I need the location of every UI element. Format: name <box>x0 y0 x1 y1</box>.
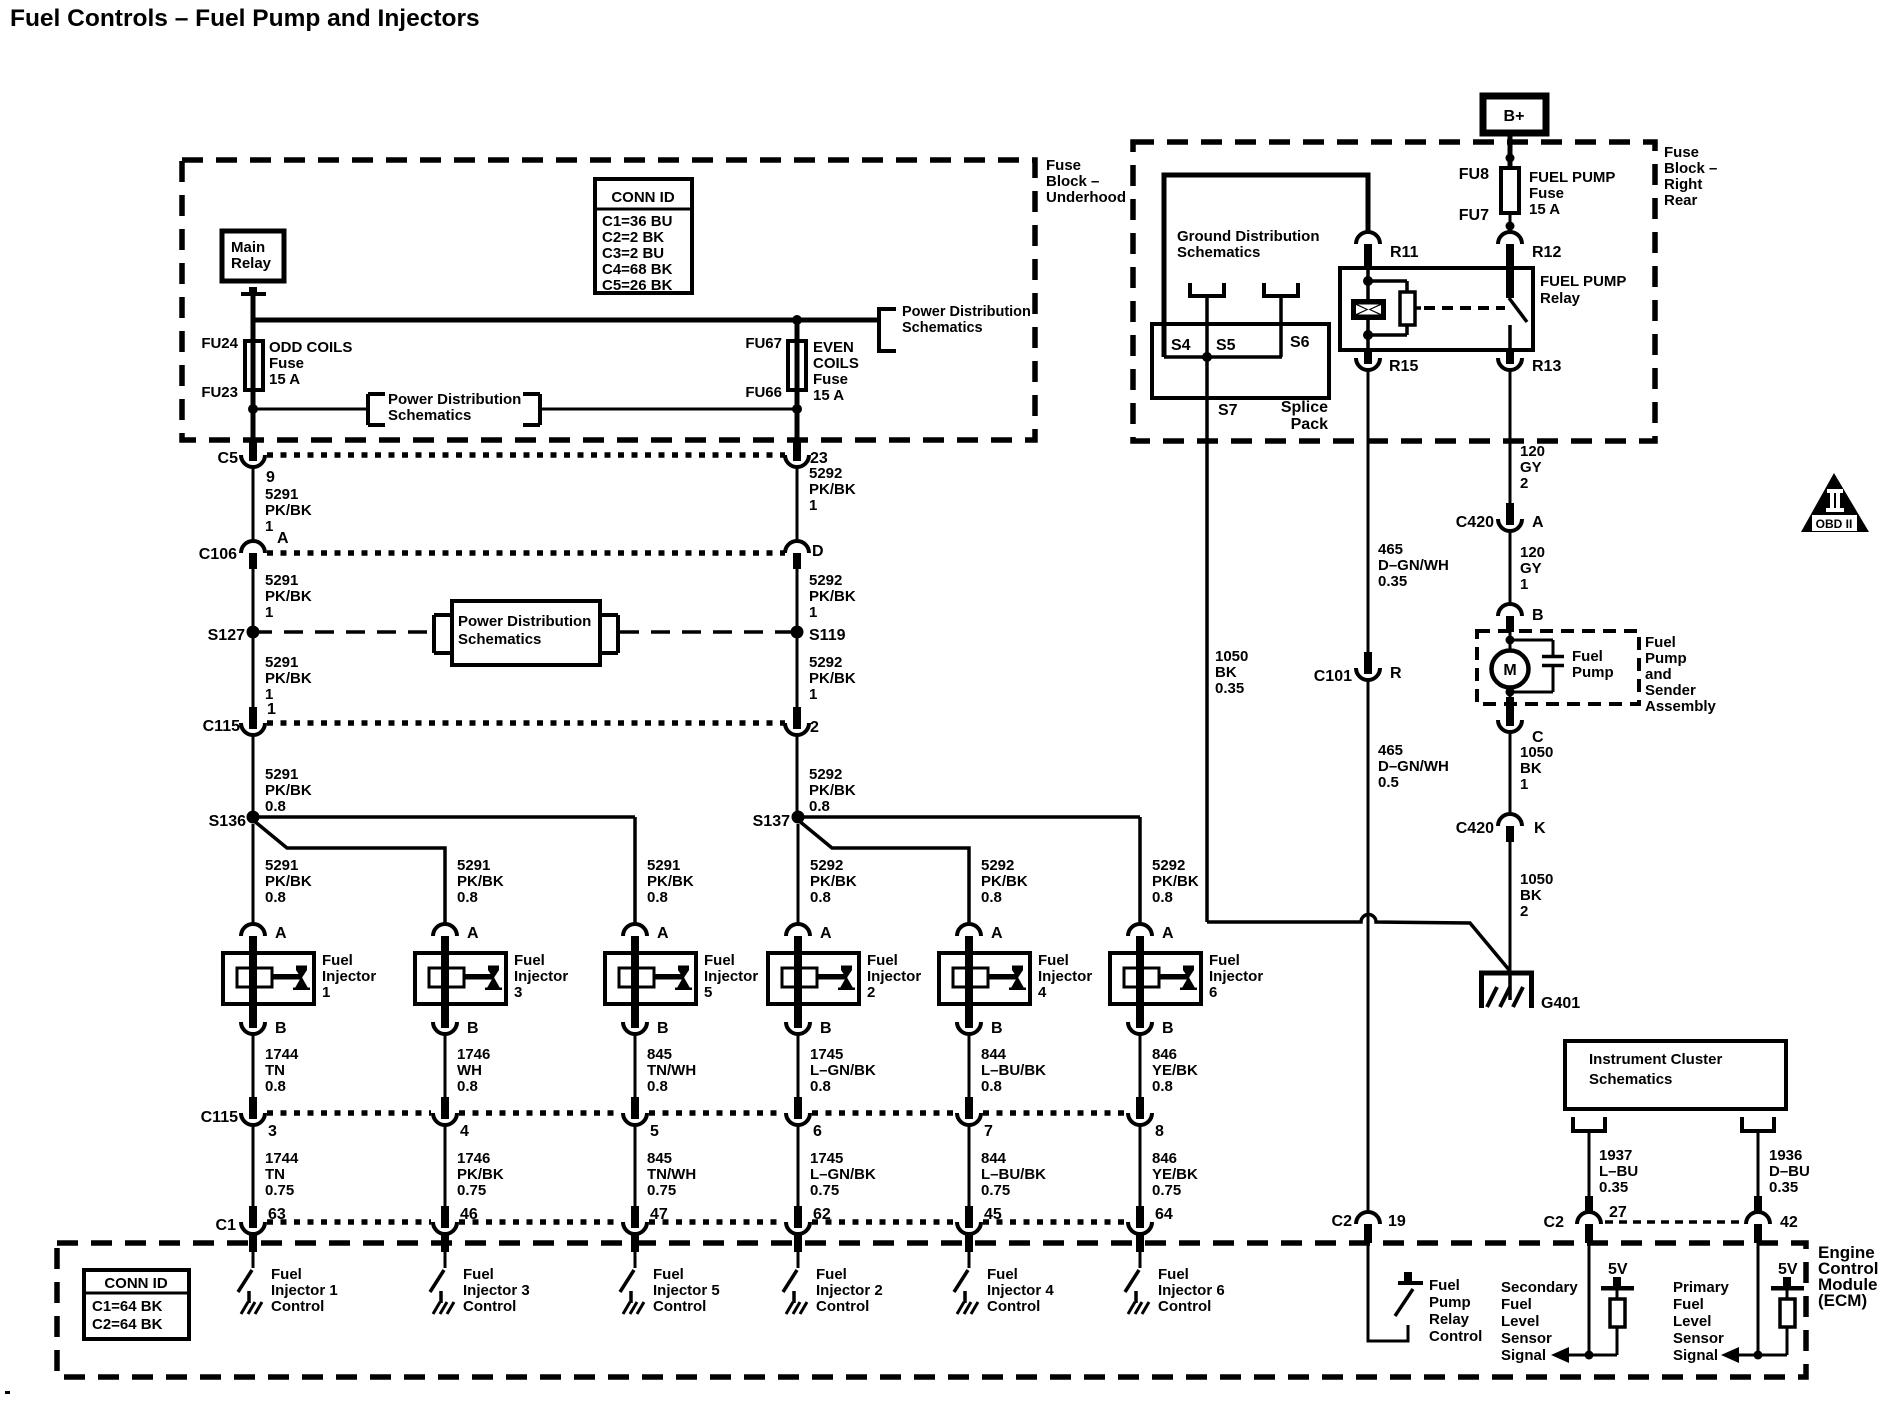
connector pin A (fuel injector 4) <box>957 924 1003 953</box>
svg-text:0.8: 0.8 <box>457 889 478 906</box>
wire 1746 0.8 (injector 3 B to C115-4) <box>444 1034 447 1097</box>
svg-text:Signal: Signal <box>1673 1347 1718 1364</box>
svg-text:FU23: FU23 <box>201 384 238 401</box>
svg-text:B: B <box>1532 607 1544 624</box>
svg-text:A: A <box>657 925 669 942</box>
svg-text:0.8: 0.8 <box>1152 889 1173 906</box>
svg-text:Injector 6: Injector 6 <box>1158 1282 1225 1299</box>
svg-text:Fuel: Fuel <box>1209 952 1240 969</box>
svg-text:0.75: 0.75 <box>981 1182 1010 1199</box>
svg-text:S137: S137 <box>753 813 790 830</box>
svg-text:15 A: 15 A <box>269 371 300 388</box>
connector pin A (fuel injector 5) <box>623 924 669 953</box>
fuel injector 1 (solenoid valve) <box>223 953 314 1004</box>
wire 120 GY 2 (R13 to C420-A) <box>1509 370 1512 503</box>
svg-text:FU24: FU24 <box>201 335 238 352</box>
5V source (secondary fuel level) <box>1601 1261 1634 1291</box>
wire 1936 D-BU 0.35 <box>1769 1147 1810 1196</box>
label Fuel Injector 1 <box>322 952 376 1001</box>
dashed wire ref to S119 <box>620 630 797 634</box>
connector line C115 row (pins 3-8) <box>267 1110 431 1116</box>
svg-text:844: 844 <box>981 1046 1007 1063</box>
svg-text:Instrument Cluster: Instrument Cluster <box>1589 1051 1723 1068</box>
wire S136 branch to injector 5 <box>253 815 635 819</box>
instrument cluster pigtail (right) <box>1742 1117 1774 1196</box>
wire 1744 0.8 (injector 1 B to C115-3) <box>252 1034 255 1097</box>
svg-text:Level: Level <box>1673 1313 1711 1330</box>
off-page ref box: Power Distribution Schematics (middle) <box>434 601 618 665</box>
relay switch contact <box>1506 268 1527 350</box>
fuse block right rear dashed box <box>1133 142 1655 441</box>
svg-text:0.75: 0.75 <box>1152 1182 1181 1199</box>
label Secondary Fuel Level Sensor Signal <box>1501 1279 1578 1364</box>
connector pin B (fuel injector 1) <box>241 1004 287 1037</box>
svg-text:S7: S7 <box>1218 402 1238 419</box>
svg-text:C1: C1 <box>216 1217 237 1234</box>
wire C1-63 into ECM <box>249 1233 257 1252</box>
connector C1 pin 45 <box>957 1206 1002 1234</box>
svg-text:Underhood: Underhood <box>1046 189 1126 206</box>
svg-text:ODD COILS: ODD COILS <box>269 339 352 356</box>
label FUEL PUMP Relay <box>1540 273 1626 307</box>
label Fuel Injector 2 <box>867 952 921 1001</box>
ECM driver switch: Fuel Injector 3 Control <box>430 1270 454 1314</box>
svg-text:Injector 4: Injector 4 <box>987 1282 1054 1299</box>
svg-text:1050: 1050 <box>1520 871 1553 888</box>
svg-text:GY: GY <box>1520 560 1542 577</box>
svg-text:1: 1 <box>267 701 276 718</box>
label Splice Pack <box>1281 399 1328 433</box>
svg-text:Control: Control <box>653 1298 706 1315</box>
svg-text:5292: 5292 <box>809 572 842 589</box>
wire 1745 0.75 (C115-6 to C1-62) <box>797 1125 800 1206</box>
wire C2-42 to primary fuel level sensor signal <box>1757 1243 1760 1355</box>
connector C1 pin 63 <box>241 1206 286 1234</box>
svg-text:Fuel: Fuel <box>653 1266 684 1283</box>
connector C115 pin 3 <box>241 1097 277 1140</box>
connector line C1 row (pins 63-64) <box>267 1219 431 1225</box>
connector C106 pin D (right) <box>785 541 824 569</box>
svg-text:PK/BK: PK/BK <box>457 1166 504 1183</box>
svg-text:Injector 3: Injector 3 <box>463 1282 530 1299</box>
svg-text:Fuel: Fuel <box>1572 648 1603 665</box>
svg-text:Injector 5: Injector 5 <box>653 1282 720 1299</box>
label Fuel Pump and Sender Assembly <box>1645 634 1717 715</box>
svg-text:Sensor: Sensor <box>1673 1330 1724 1347</box>
svg-text:4: 4 <box>460 1123 469 1140</box>
svg-text:C2=2 BK: C2=2 BK <box>602 229 664 246</box>
wire 5291 PK/BK 1 (S127 to C115-1) <box>252 632 255 707</box>
wire: horizontal feed bus to power distribution <box>251 318 879 323</box>
svg-text:R: R <box>1390 665 1402 682</box>
dashed wire S127 to power distribution ref <box>253 630 432 634</box>
connector pin B (fuel pump) <box>1498 604 1544 632</box>
relay coil suppression resistor <box>1368 281 1421 335</box>
svg-text:Injector: Injector <box>867 968 921 985</box>
svg-text:L–BU/BK: L–BU/BK <box>981 1062 1046 1079</box>
connector C115 pin 1 (left) <box>203 701 276 735</box>
connector C101 pin R <box>1314 652 1402 685</box>
wire C1-64 into ECM <box>1136 1233 1144 1252</box>
wire S137 down to injector 2 <box>797 824 800 924</box>
svg-text:465: 465 <box>1378 541 1403 558</box>
svg-text:Right: Right <box>1664 176 1702 193</box>
svg-text:0.8: 0.8 <box>457 1078 478 1095</box>
svg-text:0.8: 0.8 <box>981 889 1002 906</box>
svg-text:TN: TN <box>265 1062 285 1079</box>
svg-text:0.8: 0.8 <box>810 889 831 906</box>
svg-text:120: 120 <box>1520 443 1545 460</box>
svg-text:A: A <box>1532 514 1544 531</box>
svg-text:0.8: 0.8 <box>647 1078 668 1095</box>
wire lower ref to FU66 <box>540 408 797 411</box>
svg-text:Fuel: Fuel <box>514 952 545 969</box>
label Fuel Injector 5 Control <box>653 1266 720 1315</box>
svg-text:5291: 5291 <box>265 857 298 874</box>
svg-text:Level: Level <box>1501 1313 1539 1330</box>
ECM driver switch: Fuel Injector 2 Control <box>783 1270 807 1314</box>
svg-text:PK/BK: PK/BK <box>809 588 856 605</box>
svg-text:1745: 1745 <box>810 1150 843 1167</box>
svg-text:0.5: 0.5 <box>1378 774 1399 791</box>
wire 5291 PK/BK 1 (C5-9 to C106-A) <box>252 467 255 541</box>
svg-text:B: B <box>991 1020 1003 1037</box>
svg-text:PK/BK: PK/BK <box>265 588 312 605</box>
svg-text:1746: 1746 <box>457 1046 490 1063</box>
svg-text:5291: 5291 <box>265 486 298 503</box>
svg-text:844: 844 <box>981 1150 1007 1167</box>
svg-text:5292: 5292 <box>981 857 1014 874</box>
svg-text:D–GN/WH: D–GN/WH <box>1378 758 1449 775</box>
ground distribution loop wire <box>1164 175 1368 357</box>
svg-text:Fuel: Fuel <box>704 952 735 969</box>
svg-text:Control: Control <box>1158 1298 1211 1315</box>
svg-text:YE/BK: YE/BK <box>1152 1166 1198 1183</box>
svg-text:Relay: Relay <box>1540 290 1581 307</box>
svg-text:2: 2 <box>810 719 819 736</box>
svg-text:Splice: Splice <box>1281 399 1328 416</box>
relay coil <box>1351 268 1386 350</box>
svg-text:and: and <box>1645 666 1672 683</box>
connector pin A (fuel injector 6) <box>1128 924 1174 953</box>
svg-text:5V: 5V <box>1778 1261 1798 1278</box>
svg-text:3: 3 <box>514 984 522 1001</box>
svg-text:A: A <box>277 530 289 547</box>
svg-text:0.8: 0.8 <box>1152 1078 1173 1095</box>
svg-text:BK: BK <box>1520 760 1542 777</box>
wire label 5292 PK/BK 0.8 (to injector col 4) <box>810 857 857 906</box>
svg-text:PK/BK: PK/BK <box>809 481 856 498</box>
svg-text:C115: C115 <box>201 1109 238 1126</box>
svg-text:1744: 1744 <box>265 1150 299 1167</box>
svg-text:1: 1 <box>265 604 273 621</box>
svg-text:Fuse: Fuse <box>813 371 848 388</box>
wire C1-46 into ECM <box>441 1233 449 1252</box>
svg-text:Fuse: Fuse <box>1529 185 1564 202</box>
svg-text:FU8: FU8 <box>1459 166 1489 183</box>
svg-text:Fuel: Fuel <box>987 1266 1018 1283</box>
svg-text:Fuel: Fuel <box>1645 634 1676 651</box>
relay actuation dashed link <box>1424 306 1505 310</box>
fuel pump relay (box) <box>1340 268 1533 350</box>
wire FU23 to lower power distribution ref <box>248 404 258 414</box>
svg-text:5291: 5291 <box>647 857 680 874</box>
node junction FU67 tap <box>792 315 802 325</box>
fuel injector 4 (solenoid valve) <box>939 953 1030 1004</box>
svg-text:R13: R13 <box>1532 358 1561 375</box>
connector pin B (fuel injector 5) <box>623 1004 669 1037</box>
svg-text:5291: 5291 <box>265 654 298 671</box>
svg-text:0.8: 0.8 <box>265 889 286 906</box>
svg-text:Fuel: Fuel <box>816 1266 847 1283</box>
svg-text:Rear: Rear <box>1664 192 1698 209</box>
svg-text:Signal: Signal <box>1501 1347 1546 1364</box>
svg-text:846: 846 <box>1152 1046 1177 1063</box>
ECM driver switch: Fuel Injector 6 Control <box>1125 1270 1149 1314</box>
svg-text:S6: S6 <box>1290 334 1310 351</box>
wire S136 down to injector 1 <box>252 824 255 924</box>
wire 5291 PK/BK 1 (C106 to S127) <box>252 569 255 629</box>
label Fuel Pump (inside assembly) <box>1572 648 1614 681</box>
connector C2 pin 42 <box>1746 1196 1798 1243</box>
svg-text:FU7: FU7 <box>1459 207 1489 224</box>
svg-text:L–GN/BK: L–GN/BK <box>810 1062 876 1079</box>
svg-text:Fuse: Fuse <box>1664 144 1699 161</box>
svg-text:Control: Control <box>987 1298 1040 1315</box>
svg-text:FU67: FU67 <box>745 335 782 352</box>
svg-text:S4: S4 <box>1171 337 1191 354</box>
svg-text:L–BU: L–BU <box>1599 1163 1638 1180</box>
svg-text:Block –: Block – <box>1046 173 1099 190</box>
fuel pump and sender assembly dashed box <box>1477 631 1639 704</box>
page mark <box>5 1391 10 1394</box>
svg-text:WH: WH <box>457 1062 482 1079</box>
wire 846 0.75 (C115-8 to C1-64) <box>1139 1125 1142 1206</box>
connector C1 pin 64 <box>1128 1206 1173 1234</box>
main relay K (box) <box>222 231 284 281</box>
svg-text:1: 1 <box>809 497 817 514</box>
primary signal node and arrow <box>1721 1347 1787 1363</box>
CONN ID table (ECM) <box>84 1270 189 1339</box>
svg-text:64: 64 <box>1155 1206 1173 1223</box>
svg-text:Control: Control <box>271 1298 324 1315</box>
svg-text:1050: 1050 <box>1215 648 1248 665</box>
svg-text:Injector: Injector <box>1038 968 1092 985</box>
wire 120 GY 1 (C420-A to fuel pump B) <box>1509 531 1512 604</box>
svg-text:Main: Main <box>231 239 265 256</box>
svg-text:Schematics: Schematics <box>1177 244 1260 261</box>
svg-text:Schematics: Schematics <box>458 631 541 648</box>
svg-text:Injector: Injector <box>514 968 568 985</box>
svg-text:(ECM): (ECM) <box>1818 1291 1867 1310</box>
svg-text:0.75: 0.75 <box>810 1182 839 1199</box>
wire 1050 BK 0.35 (S7 splice pack to ground bus) <box>1205 357 1209 922</box>
svg-text:Pack: Pack <box>1291 416 1328 433</box>
5V source (primary fuel level) <box>1771 1261 1804 1291</box>
connector C1 pin 62 <box>786 1206 831 1234</box>
svg-text:0.75: 0.75 <box>457 1182 486 1199</box>
connector C2 pin 27 <box>1544 1196 1627 1243</box>
wire 465 D-GN/WH 0.35 (R15 to C101) <box>1367 370 1370 652</box>
svg-text:0.35: 0.35 <box>1378 573 1407 590</box>
engine control module (ECM) dashed box <box>57 1243 1806 1377</box>
wire C1-62 into ECM <box>794 1233 802 1252</box>
svg-text:BK: BK <box>1215 664 1237 681</box>
svg-text:27: 27 <box>1609 1204 1627 1221</box>
svg-text:5292: 5292 <box>810 857 843 874</box>
wire 465 D-GN/WH 0.5 (C101 to C2-19) <box>1367 680 1370 1212</box>
svg-text:2: 2 <box>1520 475 1528 492</box>
svg-text:S136: S136 <box>209 813 246 830</box>
svg-text:PK/BK: PK/BK <box>1152 873 1199 890</box>
svg-text:C3=2 BU: C3=2 BU <box>602 245 664 262</box>
svg-text:PK/BK: PK/BK <box>265 873 312 890</box>
svg-text:PK/BK: PK/BK <box>810 873 857 890</box>
svg-text:PK/BK: PK/BK <box>265 670 312 687</box>
svg-text:0.8: 0.8 <box>265 798 286 815</box>
splice S136 <box>209 811 260 831</box>
svg-text:C2: C2 <box>1544 1214 1565 1231</box>
wire C2-27 to secondary fuel level sensor signal <box>1588 1243 1591 1355</box>
svg-text:0.75: 0.75 <box>647 1182 676 1199</box>
svg-text:PK/BK: PK/BK <box>809 670 856 687</box>
wire 844 0.75 (C115-7 to C1-45) <box>968 1125 971 1206</box>
svg-text:Injector: Injector <box>704 968 758 985</box>
svg-text:Pump: Pump <box>1429 1294 1471 1311</box>
svg-text:C2: C2 <box>1332 1213 1353 1230</box>
svg-text:L–BU/BK: L–BU/BK <box>981 1166 1046 1183</box>
wire 844 0.8 (injector 4 B to C115-7) <box>968 1034 971 1097</box>
svg-text:Power Distribution: Power Distribution <box>388 391 521 408</box>
wire 846 0.8 (injector 6 B to C115-8) <box>1139 1034 1142 1097</box>
connector pin C (fuel pump) <box>1498 697 1544 746</box>
svg-text:Fuel: Fuel <box>463 1266 494 1283</box>
svg-text:7: 7 <box>984 1123 993 1140</box>
wire 5292 PK/BK 1 (S119 to C115-2) <box>796 632 799 707</box>
svg-text:BK: BK <box>1520 887 1542 904</box>
splice pack pigtail (left) <box>1190 283 1224 324</box>
svg-text:120: 120 <box>1520 544 1545 561</box>
svg-text:Fuel: Fuel <box>322 952 353 969</box>
svg-text:5V: 5V <box>1608 1261 1628 1278</box>
svg-text:1050: 1050 <box>1520 744 1553 761</box>
ECM driver: fuel pump relay control switch <box>1395 1272 1423 1316</box>
svg-text:B: B <box>657 1020 669 1037</box>
wire label 5292 PK/BK 0.8 (to injector col 5) <box>981 857 1028 906</box>
svg-text:465: 465 <box>1378 742 1403 759</box>
svg-text:1: 1 <box>1520 776 1528 793</box>
svg-text:Pump: Pump <box>1645 650 1687 667</box>
svg-text:1937: 1937 <box>1599 1147 1632 1164</box>
svg-text:Primary: Primary <box>1673 1279 1730 1296</box>
main relay output terminal <box>241 287 266 296</box>
svg-text:PK/BK: PK/BK <box>981 873 1028 890</box>
connector R13 <box>1498 350 1561 375</box>
battery feed B+ <box>1483 96 1546 133</box>
ECM driver switch: Fuel Injector 1 Control <box>238 1270 262 1314</box>
svg-text:Injector 1: Injector 1 <box>271 1282 338 1299</box>
svg-text:5291: 5291 <box>457 857 490 874</box>
label Fuel Pump Relay Control <box>1429 1277 1482 1345</box>
svg-text:Fuse: Fuse <box>269 355 304 372</box>
connector R11 <box>1356 232 1419 268</box>
svg-text:1745: 1745 <box>810 1046 843 1063</box>
svg-text:6: 6 <box>1209 984 1217 1001</box>
svg-text:Fuel Controls – Fuel Pump and: Fuel Controls – Fuel Pump and Injectors <box>10 5 480 32</box>
svg-text:Control: Control <box>1429 1328 1482 1345</box>
svg-text:C115: C115 <box>203 718 240 735</box>
fuel injector 6 (solenoid valve) <box>1110 953 1201 1004</box>
svg-text:C5=26 BK: C5=26 BK <box>602 277 673 294</box>
svg-text:B: B <box>275 1020 287 1037</box>
CONN ID table (top) <box>595 179 692 294</box>
connector C115 pin 8 <box>1128 1097 1164 1140</box>
connector line C2 row <box>1605 1220 1742 1224</box>
svg-text:2: 2 <box>1520 903 1528 920</box>
svg-text:C106: C106 <box>199 546 237 563</box>
svg-text:0.75: 0.75 <box>265 1182 294 1199</box>
label Fuel Injector 4 Control <box>987 1266 1054 1315</box>
svg-text:C420: C420 <box>1456 514 1494 531</box>
label Ground Distribution Schematics <box>1177 228 1319 261</box>
connector pin B (fuel injector 6) <box>1128 1004 1174 1037</box>
fuse block underhood dashed box <box>182 160 1035 440</box>
svg-text:5292: 5292 <box>1152 857 1185 874</box>
svg-text:1: 1 <box>1520 576 1528 593</box>
wire 1937 L-BU 0.35 <box>1599 1147 1638 1196</box>
svg-text:M: M <box>1503 662 1516 679</box>
svg-text:A: A <box>275 925 287 942</box>
wire S137 branch to injector 4 <box>798 820 969 924</box>
svg-text:Injector: Injector <box>1209 968 1263 985</box>
svg-text:5292: 5292 <box>809 465 842 482</box>
svg-text:PK/BK: PK/BK <box>265 502 312 519</box>
connector C115 pin 2 (right) <box>785 707 819 736</box>
svg-text:Pump: Pump <box>1572 664 1614 681</box>
svg-text:GY: GY <box>1520 459 1542 476</box>
svg-text:EVEN: EVEN <box>813 339 854 356</box>
label Fuel Injector 5 <box>704 952 758 1001</box>
svg-text:8: 8 <box>1155 1123 1164 1140</box>
svg-text:Injector 2: Injector 2 <box>816 1282 883 1299</box>
svg-text:TN: TN <box>265 1166 285 1183</box>
label Fuel Injector 2 Control <box>816 1266 883 1315</box>
connector C115 pin 6 <box>786 1097 822 1140</box>
svg-text:Fuel: Fuel <box>1501 1296 1532 1313</box>
svg-text:0.8: 0.8 <box>647 889 668 906</box>
svg-text:B: B <box>820 1020 832 1037</box>
svg-text:Schematics: Schematics <box>902 320 983 336</box>
svg-text:0.8: 0.8 <box>981 1078 1002 1095</box>
svg-text:1744: 1744 <box>265 1046 299 1063</box>
svg-text:845: 845 <box>647 1046 672 1063</box>
svg-text:6: 6 <box>813 1123 822 1140</box>
wire 1745 0.8 (injector 2 B to C115-6) <box>797 1034 800 1097</box>
svg-text:PK/BK: PK/BK <box>809 782 856 799</box>
svg-text:B+: B+ <box>1504 108 1525 125</box>
ground G401 <box>1479 973 1580 1012</box>
svg-text:0.35: 0.35 <box>1215 680 1244 697</box>
svg-text:Power Distribution: Power Distribution <box>458 613 591 630</box>
svg-text:C1=64 BK: C1=64 BK <box>92 1298 163 1315</box>
svg-text:2: 2 <box>867 984 875 1001</box>
svg-text:C420: C420 <box>1456 820 1494 837</box>
svg-text:TN/WH: TN/WH <box>647 1166 696 1183</box>
label Primary Fuel Level Sensor Signal <box>1673 1279 1730 1364</box>
wire label 5291 PK/BK 0.8 (to injector col 3) <box>647 857 694 906</box>
wire 5291 PK/BK 0.8 (C115-1 to S136) <box>252 735 255 817</box>
svg-text:42: 42 <box>1780 1214 1798 1231</box>
